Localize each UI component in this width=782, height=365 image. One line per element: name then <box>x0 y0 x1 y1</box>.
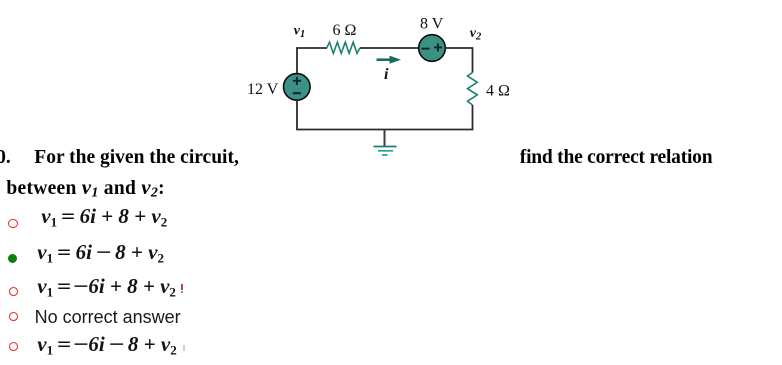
wire V1 to bottom-left corner <box>297 100 385 129</box>
option 1 formula <box>41 206 167 229</box>
svg-text:12 V: 12 V <box>247 81 279 98</box>
option 5 radio <box>9 342 18 351</box>
svg-text:i: i <box>384 66 389 83</box>
option 2 radio (selected) <box>8 254 17 263</box>
voltage source V1 12V <box>284 74 311 101</box>
wire R1 to source V2 <box>360 47 419 49</box>
wire top-left segment (node v1 corner to R1) <box>297 48 327 74</box>
svg-text:6 Ω: 6 Ω <box>333 22 357 39</box>
option 3 radio <box>9 287 18 296</box>
svg-text:v2: v2 <box>470 26 482 43</box>
voltage source V2 8V <box>419 35 446 62</box>
option 4 radio <box>9 312 18 321</box>
svg-text:4 Ω: 4 Ω <box>486 83 510 100</box>
option 5 trailing mark <box>183 345 185 351</box>
option 4 text <box>35 308 181 326</box>
resistor R2 4ohm zigzag <box>468 73 478 106</box>
svg-text:8 V: 8 V <box>420 15 444 32</box>
svg-text:v1: v1 <box>294 24 305 41</box>
question line 2 <box>6 177 165 201</box>
wire V2 to top-right corner then down to R2 <box>445 48 472 73</box>
option 3 formula <box>37 276 176 299</box>
wire R2 to bottom-right corner <box>385 105 473 130</box>
resistor R1 6ohm zigzag <box>327 42 360 53</box>
ground <box>374 130 397 156</box>
option 2 formula <box>37 242 164 265</box>
question line 1 <box>0 148 11 168</box>
option 1 radio <box>8 219 17 228</box>
option 3 trailing mark <box>181 284 183 290</box>
current arrow i <box>377 56 402 64</box>
option 5 formula <box>37 334 176 357</box>
